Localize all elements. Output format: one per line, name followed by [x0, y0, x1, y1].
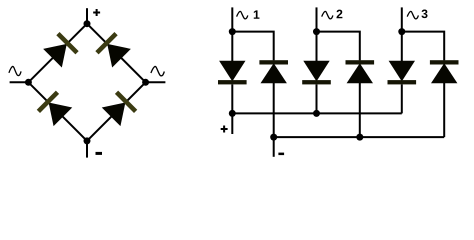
wire: phase 3 input column: [401, 7, 403, 61]
wire: bridge edge bottom-left (AC-left node to - node): [28, 82, 87, 141]
node: + node (top): [84, 20, 91, 27]
wire: - output stub (bottom): [86, 141, 88, 158]
label: + (three-phase output): [221, 126, 227, 132]
node: - node (bottom): [84, 137, 91, 144]
label: sine symbol phase 2: [322, 11, 333, 19]
wire: + output stub: [231, 113, 233, 134]
wire: bridge edge top-left (AC-left node to + node): [28, 24, 87, 83]
wire: - output stub: [273, 137, 275, 157]
node: - bus phase1 junction: [270, 134, 277, 141]
diode bridge top-left: [43, 32, 79, 68]
label: AC sine symbol left: [9, 66, 21, 75]
node: + bus phase2 junction: [313, 110, 320, 117]
diode - bus to phase 1 (cathode up): [259, 60, 288, 83]
wire: + bus: [232, 112, 401, 114]
label: 2: [337, 10, 343, 19]
diode - bus to phase 2 (cathode up): [346, 60, 375, 83]
label: - (three-phase output): [278, 153, 284, 156]
label: sine symbol phase 1: [237, 11, 248, 19]
wire: phase 1 link to second diode: [232, 32, 273, 61]
node: AC right: [142, 79, 149, 86]
label: AC sine symbol right: [151, 66, 164, 75]
wire: phase1 up-diode down to - bus: [273, 83, 275, 137]
wire: phase2 up-diode down to - bus: [359, 83, 361, 137]
node: AC left: [25, 79, 32, 86]
diode - bus to phase 3 (cathode up): [430, 60, 459, 83]
wire: AC input stub left: [10, 81, 29, 83]
wire: phase 2 input column: [316, 7, 318, 61]
wire: bridge edge bottom-right (- node to AC-right node): [87, 82, 146, 141]
wire: phase 3 link to second diode: [402, 32, 444, 61]
node: phase 3 junction: [398, 28, 405, 35]
wire: phase2 down-diode to + bus: [316, 85, 318, 114]
wire: phase3 down-diode to + bus: [401, 85, 403, 114]
diode bridge top-right: [95, 32, 131, 68]
wire: AC input stub right: [146, 81, 166, 83]
wire: phase3 up-diode down to - bus: [443, 83, 445, 137]
wire: phase 2 link to second diode: [317, 32, 360, 61]
node: phase 2 junction: [313, 28, 320, 35]
label: + (bridge top): [93, 9, 99, 15]
diode bridge bottom-left: [37, 91, 73, 127]
label: sine symbol phase 3: [407, 11, 418, 19]
diode phase 1 to + bus (cathode down): [218, 61, 247, 85]
wire: - bus: [274, 136, 445, 138]
label: - (bridge bottom): [96, 152, 103, 155]
label: 1: [254, 10, 260, 18]
diode phase 3 to + bus (cathode down): [388, 61, 417, 85]
node: + bus phase1 junction: [229, 110, 236, 117]
wire: + output stub (top): [86, 8, 88, 24]
wire: phase1 down-diode to + bus: [231, 85, 233, 114]
wire: bridge edge top-right (+ node to AC-right node): [87, 24, 146, 83]
diode phase 2 to + bus (cathode down): [302, 61, 331, 85]
diode bridge bottom-right: [102, 91, 138, 127]
node: - bus phase2 junction: [356, 134, 363, 141]
wire: phase 1 input column: [231, 7, 233, 61]
node: phase 1 junction: [229, 28, 236, 35]
label: 3: [421, 9, 427, 18]
